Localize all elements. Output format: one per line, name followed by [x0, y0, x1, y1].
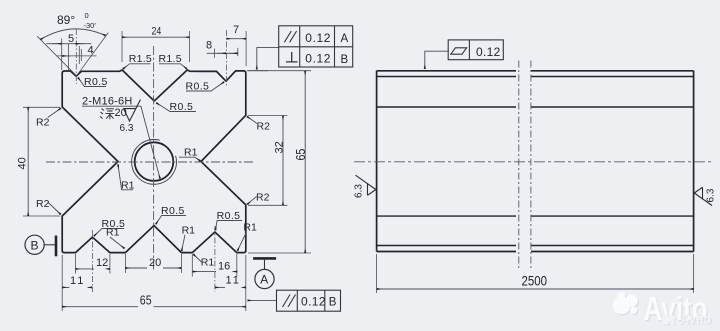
- perpendicularity symbol: [286, 52, 298, 62]
- svg-text:R0.5: R0.5: [217, 210, 241, 222]
- dim 24 extension lines: [121, 31, 123, 62]
- notch centerline bottom-left: [91, 230, 93, 292]
- svg-text:A: A: [260, 273, 268, 287]
- dimension 5 line: [46, 43, 91, 45]
- inner line upper: [377, 106, 694, 108]
- svg-text:11: 11: [226, 275, 241, 287]
- svg-text:5: 5: [68, 33, 74, 45]
- svg-text:6.3: 6.3: [354, 184, 365, 198]
- roughness symbol right view left edge: [356, 175, 376, 195]
- svg-text:R2: R2: [256, 192, 270, 204]
- svg-text:8: 8: [206, 40, 212, 52]
- svg-text:12: 12: [96, 257, 108, 269]
- svg-text:R2: R2: [36, 117, 50, 129]
- flatness symbol: [451, 48, 467, 54]
- leader R0.5 bottom-left notch: [94, 229, 124, 237]
- svg-text:11: 11: [70, 275, 85, 287]
- watermark logo shadow: [614, 293, 639, 316]
- svg-text:89°: 89°: [57, 13, 75, 27]
- roughness symbol right view right edge: [694, 187, 712, 205]
- svg-text:R1: R1: [106, 227, 120, 239]
- dim 32 extension lines: [248, 115, 287, 117]
- tolerance frame top (parallelism/perpendicularity): [279, 26, 353, 67]
- parallelism symbol: [283, 295, 296, 308]
- leader R2 right-top: [247, 117, 257, 124]
- dim 8 ticks: [214, 49, 216, 58]
- 89 deg angle extension line right: [77, 33, 109, 76]
- top edge extension for perpendicularity arrow: [247, 70, 268, 72]
- notch centerline bottom-right: [214, 226, 216, 292]
- dim 40 extension lines: [23, 106, 60, 108]
- svg-text:4: 4: [88, 45, 94, 57]
- dim 7 extension line: [245, 31, 247, 66]
- tolerance frame bottom (parallelism 0.12 B): [277, 290, 341, 311]
- dimension 32 line: [282, 116, 284, 206]
- svg-text:R0.5: R0.5: [161, 205, 185, 217]
- svg-text:24: 24: [152, 26, 162, 38]
- top edge line 2: [377, 76, 694, 78]
- svg-text:R1: R1: [201, 257, 215, 269]
- watermark logo circles: [613, 292, 638, 315]
- leader R0.5 central top V: [156, 103, 196, 112]
- horizontal centerline: [46, 161, 254, 163]
- svg-text:R2: R2: [36, 198, 50, 210]
- leader R1 bottom 2: [182, 235, 185, 251]
- svg-text:0.12: 0.12: [476, 45, 501, 59]
- datum A bar: [253, 257, 276, 260]
- bottom edge line 2: [377, 251, 694, 253]
- flatness tolerance frame: [448, 40, 503, 60]
- svg-text:R0.5: R0.5: [170, 101, 194, 113]
- svg-text:7: 7: [233, 24, 239, 36]
- leader R1 bottom 3: [237, 232, 246, 251]
- svg-text:0.12: 0.12: [301, 295, 326, 309]
- notch centerline top-right: [226, 30, 228, 87]
- dimension 16 line: [193, 271, 216, 273]
- svg-text:Avito: Avito: [681, 312, 712, 327]
- svg-text:R1: R1: [182, 225, 196, 237]
- parallelism symbol: [284, 31, 296, 42]
- leader R0.5 top-left notch: [78, 78, 106, 87]
- svg-text:R1.5: R1.5: [129, 53, 152, 65]
- notch centerline top-left: [75, 29, 77, 84]
- left view outline: [62, 70, 246, 253]
- dimension 11 right line: [215, 286, 225, 288]
- svg-text:A: A: [341, 33, 349, 45]
- right view right edge: [693, 71, 695, 252]
- 89 deg angle extension line left: [37, 36, 76, 76]
- leader R0.5 top-right notch: [186, 82, 224, 91]
- svg-text:B: B: [341, 54, 349, 66]
- svg-text:R1: R1: [121, 180, 135, 192]
- dimension 65 right line: [304, 71, 306, 253]
- leader R0.5 bottom-center: [156, 216, 186, 225]
- right view left edge: [376, 71, 378, 252]
- leader thread hole: [82, 106, 160, 178]
- svg-text:R0.5: R0.5: [186, 81, 210, 93]
- thread major dia thin arc: [132, 139, 177, 184]
- tick 68.5: [68, 44, 70, 70]
- leader R1 center-left: [118, 165, 133, 190]
- dimension 8 line: [207, 52, 239, 54]
- leader R1.5 left: [123, 64, 151, 69]
- leader to tolerance frame bottom: [248, 299, 277, 301]
- svg-text:B: B: [329, 297, 337, 309]
- top edge line 1: [377, 70, 694, 72]
- svg-text:40: 40: [17, 157, 29, 169]
- dimension 7 line: [227, 38, 247, 40]
- watermark ghost logo: [662, 314, 676, 326]
- svg-text:R2: R2: [257, 121, 271, 133]
- leader R1.5 right: [159, 64, 187, 69]
- svg-text:0.12: 0.12: [305, 52, 331, 66]
- dimension 24 line: [122, 36, 189, 38]
- dim 65 right extension lines: [248, 70, 311, 72]
- svg-text:R1: R1: [184, 147, 198, 159]
- svg-text:20: 20: [149, 257, 161, 269]
- right view centerline: [354, 161, 712, 163]
- depth label (CJK shen) 20: [100, 109, 114, 120]
- svg-text:6.3: 6.3: [706, 188, 717, 202]
- svg-text:R1: R1: [243, 222, 257, 234]
- roughness symbol at thread: [124, 100, 141, 122]
- svg-text:32: 32: [274, 141, 286, 153]
- leader R1 bottom 4: [193, 254, 201, 262]
- vertical centerline: [153, 46, 155, 272]
- dimension 11 left line: [62, 286, 69, 288]
- svg-text:R0.5: R0.5: [84, 76, 108, 88]
- svg-text:-30′: -30′: [84, 21, 97, 30]
- center hole inner circle: [135, 142, 174, 181]
- leader R1 center-right: [179, 157, 200, 161]
- bottom extension lines: [61, 255, 63, 311]
- svg-text:65: 65: [293, 149, 308, 161]
- svg-text:2-M16-6H: 2-M16-6H: [82, 96, 133, 108]
- svg-text:B: B: [31, 239, 39, 253]
- svg-text:20: 20: [115, 107, 127, 119]
- datum B circle: [25, 235, 44, 254]
- svg-text:0.12: 0.12: [305, 31, 331, 45]
- dimension 40 line: [27, 107, 29, 216]
- datum A circle: [255, 269, 274, 288]
- svg-text:6.3: 6.3: [120, 123, 134, 134]
- bottom edge line 1: [377, 245, 694, 247]
- left edge extension line up: [61, 39, 63, 71]
- leader R0.5 bottom-right notch: [215, 221, 242, 231]
- dim 2500 extension lines: [376, 254, 378, 293]
- 89 deg dimension arc: [41, 29, 106, 40]
- break line left: [518, 61, 520, 271]
- dimension 65 bottom line: [62, 306, 138, 308]
- dimension 20 line: [125, 267, 147, 269]
- dimension 2500 line: [377, 288, 694, 290]
- leader R2 right-bottom: [247, 197, 256, 205]
- leader to flatness frame: [425, 51, 449, 69]
- svg-text:R1.5: R1.5: [159, 53, 182, 65]
- svg-text:2500: 2500: [522, 273, 548, 289]
- datum A stem: [264, 258, 266, 269]
- leader R1 bottom 1: [110, 237, 125, 249]
- svg-text:65: 65: [140, 293, 152, 308]
- break line right: [530, 61, 532, 271]
- leader R2 left-top: [48, 108, 61, 117]
- svg-text:16: 16: [218, 260, 230, 272]
- leader to tolerance frame top: [257, 48, 279, 70]
- datum B bar: [55, 236, 58, 257]
- dimension 12 line: [76, 268, 95, 270]
- svg-text:0: 0: [85, 11, 89, 20]
- inner line lower: [377, 215, 694, 217]
- leader R2 left-bottom: [48, 202, 61, 215]
- datum B stem: [44, 244, 55, 246]
- tick 79.3: [78, 46, 80, 64]
- dimension 4 line: [57, 55, 97, 57]
